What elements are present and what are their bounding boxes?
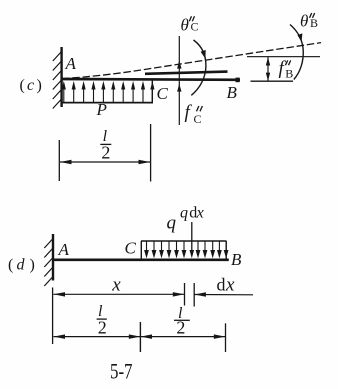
figure (c) label — [20, 77, 42, 94]
svg-text:): ) — [37, 77, 42, 94]
distributed load q rectangle (d) — [140, 241, 142, 259]
svg-text:x: x — [196, 204, 204, 221]
deflection dashed curve (c) — [62, 43, 321, 79]
svg-text:B: B — [231, 250, 242, 269]
svg-text:θ: θ — [300, 11, 308, 30]
dimension x (d): extension line — [52, 288, 54, 345]
svg-text:B: B — [310, 16, 318, 30]
f''B dimension (c) — [267, 57, 269, 81]
svg-text:P: P — [96, 100, 107, 119]
svg-text:B: B — [227, 83, 238, 102]
svg-text:d: d — [17, 257, 26, 274]
dx element ticks (d) — [184, 283, 186, 306]
svg-text:C: C — [191, 20, 199, 34]
svg-text:C: C — [194, 112, 202, 126]
f''C label — [185, 102, 202, 126]
svg-text:A: A — [58, 240, 70, 259]
svg-text:q: q — [167, 213, 177, 234]
right extension line (d) — [225, 323, 227, 352]
dimension l/2 l/2 (d): line — [54, 336, 226, 338]
angle arc theta''C (c) — [191, 40, 206, 95]
svg-text:(: ( — [8, 257, 13, 274]
theta''B label — [300, 11, 318, 30]
svg-text:f: f — [185, 102, 193, 123]
load arrows up (c) — [62, 81, 155, 103]
svg-text:x: x — [111, 274, 121, 295]
svg-text:5-7: 5-7 — [110, 358, 133, 383]
q dx label (d) — [180, 204, 204, 221]
dx label (d) — [217, 274, 236, 295]
beam end cap (c) — [236, 78, 240, 83]
horizontal reference line at B (c) — [247, 56, 320, 58]
svg-text:d: d — [217, 274, 226, 294]
l/2 fraction left (d) — [98, 303, 107, 338]
short reference line below B' (c) — [251, 80, 294, 82]
figure (d) label — [8, 257, 35, 274]
wall hatching (c) — [53, 52, 62, 109]
angle arc theta''B (c) — [290, 25, 303, 80]
load arrows down (d) — [144, 242, 228, 259]
middle tick (d) — [139, 322, 141, 352]
svg-text:C: C — [125, 239, 137, 258]
fixed wall (c) — [60, 47, 62, 107]
svg-text:x: x — [225, 274, 235, 295]
svg-text:B: B — [285, 67, 293, 81]
distributed load P rectangle (c) — [61, 80, 63, 103]
svg-text:c: c — [27, 77, 34, 94]
svg-text:C: C — [157, 84, 169, 103]
wall hatching (d) — [44, 239, 53, 287]
fixed wall (d) — [52, 234, 54, 281]
svg-text:2: 2 — [101, 143, 110, 163]
beam AB (c) — [61, 78, 241, 82]
svg-text:q: q — [180, 204, 188, 221]
svg-text:): ) — [30, 257, 35, 274]
f''B label — [279, 58, 294, 81]
theta''C label — [181, 15, 199, 34]
l/2 fraction right (d) — [176, 305, 185, 337]
beam AB (d) — [52, 258, 229, 261]
dimension l/2 (c): arrow line — [60, 161, 150, 163]
svg-text:(: ( — [20, 77, 25, 94]
l/2 fraction (c) — [101, 128, 110, 163]
deflection f''C indicator line (c) — [178, 36, 180, 125]
svg-text:θ: θ — [181, 15, 189, 34]
svg-text:2: 2 — [98, 318, 107, 338]
tangent line at C (c) — [145, 72, 228, 74]
dimension l/2 (c): extension lines — [58, 140, 60, 181]
dx dimension arrow (d) — [194, 294, 253, 296]
dimension x (d): line and arrows — [54, 293, 185, 295]
svg-text:A: A — [65, 54, 77, 73]
q dx element arrow (d) — [191, 222, 193, 251]
